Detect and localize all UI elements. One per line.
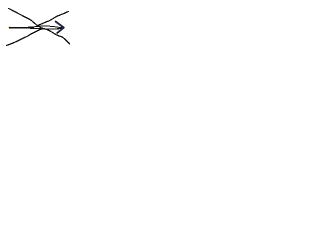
shaft left end orange fringe xyxy=(9,26,11,28)
arrowhead orange fringe xyxy=(55,21,63,27)
wire: arrow shaft upper stroke xyxy=(10,26,64,28)
wire: diagonal descending line (top-left to bottom-right) xyxy=(9,9,70,44)
wire: diagonal ascending line, lower-left part xyxy=(7,29,43,46)
wire: arrow shaft lower stroke xyxy=(9,28,63,29)
sketched arrow figure xyxy=(0,0,80,52)
arrowhead (open V pointing right) xyxy=(56,22,64,33)
wire: diagonal ascending line, upper-right part xyxy=(37,11,68,25)
arrowhead blue tint xyxy=(56,22,63,32)
